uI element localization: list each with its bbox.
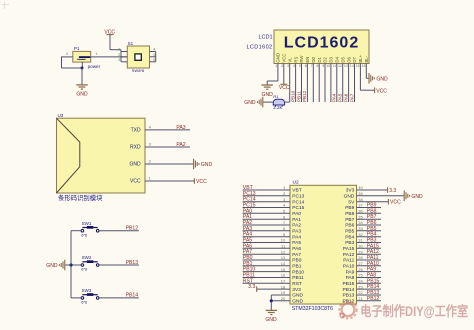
power port VCC (LCD pin15) — [375, 87, 388, 94]
svg-text:PB6: PB6 — [345, 223, 354, 229]
svg-text:15: 15 — [356, 64, 360, 68]
svg-text:PB11: PB11 — [296, 91, 301, 102]
svg-text:14: 14 — [350, 64, 354, 68]
wire U2 pin37 — [357, 207, 382, 209]
svg-text:PA12: PA12 — [343, 252, 355, 258]
wire U2 pin25 — [357, 277, 382, 279]
power port VCC (U2 pin38) — [388, 199, 401, 206]
svg-text:4: 4 — [293, 64, 295, 68]
svg-text:22: 22 — [358, 290, 363, 295]
svg-text:3: 3 — [287, 64, 289, 68]
svg-text:5: 5 — [299, 64, 301, 68]
wire SW3 left — [71, 297, 81, 299]
svg-text:PB9: PB9 — [345, 205, 354, 211]
svg-text:3V3: 3V3 — [346, 188, 355, 194]
svg-text:GND: GND — [276, 53, 281, 63]
wire U3 GND — [145, 163, 193, 165]
svg-text:8: 8 — [317, 64, 319, 68]
power port 3.3 (U2 pin18) — [248, 284, 256, 292]
svg-text:3.3: 3.3 — [248, 284, 255, 290]
wire LCD pin14 — [354, 64, 356, 103]
wire LCD pin15 to VCC — [360, 64, 374, 91]
svg-text:35: 35 — [358, 214, 363, 219]
svg-text:SW1: SW1 — [82, 221, 92, 226]
svg-text:GND: GND — [46, 263, 58, 269]
svg-text:TXD: TXD — [131, 128, 141, 134]
svg-text:6*6: 6*6 — [81, 300, 88, 305]
svg-text:PA8: PA8 — [346, 275, 355, 281]
wire U2 pin1 — [243, 189, 290, 191]
svg-text:6*6: 6*6 — [81, 267, 88, 272]
svg-text:11: 11 — [332, 64, 336, 68]
svg-text:VBT: VBT — [292, 188, 301, 194]
svg-text:power: power — [88, 64, 101, 69]
svg-text:GND: GND — [292, 293, 303, 299]
svg-text:VCC: VCC — [390, 200, 401, 206]
svg-text:PC14: PC14 — [292, 199, 304, 205]
svg-text:R1: R1 — [273, 94, 279, 99]
svg-text:PA4: PA4 — [332, 93, 337, 102]
svg-text:PB0: PB0 — [292, 258, 301, 264]
svg-text:31: 31 — [358, 238, 363, 243]
svg-text:D2: D2 — [323, 56, 328, 62]
svg-text:PB13: PB13 — [126, 260, 139, 266]
svg-text:5V: 5V — [348, 199, 355, 205]
wire U3 VCC — [145, 180, 194, 182]
svg-text:PA0: PA0 — [292, 211, 301, 217]
svg-text:2.2K: 2.2K — [273, 105, 282, 110]
wire U2 pin16 — [243, 277, 290, 279]
wire U2 pin7 — [243, 224, 290, 226]
svg-text:GND: GND — [411, 194, 423, 200]
LCD module LCD1 (LCD1602) — [274, 30, 369, 64]
svg-text:23: 23 — [358, 284, 363, 289]
wire U2 pin20 GND — [271, 300, 290, 302]
wire LCD pin12 — [342, 64, 344, 103]
svg-text:PB12: PB12 — [367, 296, 380, 302]
svg-text:PB13: PB13 — [343, 293, 355, 299]
wire U2 pin28 — [357, 259, 382, 261]
svg-text:14: 14 — [281, 261, 286, 266]
wire GND arrow to common — [65, 264, 71, 266]
MCU U2 STM32F103C8T6 — [290, 180, 357, 312]
svg-text:VCC: VCC — [196, 179, 207, 185]
wire U2 pin21 — [357, 300, 382, 302]
svg-text:19: 19 — [281, 290, 286, 295]
svg-text:RW: RW — [299, 55, 304, 63]
ground arrow (R1) — [244, 97, 263, 108]
svg-text:12: 12 — [281, 249, 286, 254]
svg-text:7: 7 — [311, 64, 313, 68]
svg-text:PB11: PB11 — [292, 275, 304, 281]
svg-text:PC15: PC15 — [292, 205, 304, 211]
wire U2 pin15 — [243, 271, 290, 273]
ground arrow (U3) — [194, 159, 213, 170]
wire U2 pin27 — [357, 265, 382, 267]
resistor R1 2.2K — [273, 94, 284, 110]
wire U2 pin9 — [243, 236, 290, 238]
svg-text:PA9: PA9 — [346, 269, 355, 275]
svg-text:RST: RST — [292, 281, 302, 287]
svg-text:GND: GND — [76, 91, 88, 97]
power port VCC (LCD pin2) — [279, 84, 290, 91]
wire switch common vertical — [70, 231, 72, 298]
wire U2 pin40 3V3 — [357, 189, 388, 191]
svg-text:PA5: PA5 — [292, 240, 301, 246]
svg-text:2: 2 — [281, 64, 283, 68]
svg-text:P1: P1 — [74, 46, 80, 51]
wire U2 pin24 — [357, 282, 382, 284]
svg-text:PB14: PB14 — [343, 287, 355, 293]
wire LCD pin2 VCC — [283, 64, 285, 85]
wire LCD pin9 — [324, 64, 326, 103]
svg-text:D5: D5 — [340, 56, 345, 62]
wire U2 pin14 — [243, 265, 290, 267]
wire VCC to S1 pin1 — [110, 35, 121, 50]
svg-text:GND: GND — [244, 100, 256, 106]
svg-text:20: 20 — [281, 296, 286, 301]
wire U2 pin19 GND — [271, 294, 290, 296]
wire U2 pin3 — [243, 201, 290, 203]
wire LCD pin5 — [301, 64, 303, 103]
wire U3 TXD — [145, 129, 190, 131]
svg-text:STM32F103C8T6: STM32F103C8T6 — [292, 306, 333, 312]
wire SW3 right — [99, 297, 139, 299]
ground symbol LCD pin1 — [262, 85, 274, 98]
svg-text:40: 40 — [358, 185, 363, 190]
svg-text:PA5: PA5 — [338, 93, 343, 102]
svg-text:PA2: PA2 — [176, 142, 185, 148]
junction dot U2 ground — [270, 299, 273, 302]
svg-text:RXD: RXD — [130, 145, 141, 151]
wire LCD pin10 — [330, 64, 332, 103]
wire SW1 right — [99, 230, 139, 232]
S1 left pin stubs and link — [121, 50, 127, 62]
svg-text:PB4: PB4 — [345, 234, 354, 240]
ground symbol below P1 — [76, 85, 88, 98]
svg-text:GND: GND — [292, 299, 303, 305]
wire U2 pin32 — [357, 236, 382, 238]
svg-text:VCC: VCC — [376, 88, 387, 94]
connector P1 — [73, 46, 101, 69]
wire LCD pin11 — [336, 64, 338, 103]
wire U2 pin35 — [357, 218, 382, 220]
svg-text:1: 1 — [275, 64, 277, 68]
wire LCD pin6 — [306, 64, 308, 103]
wire U2 pin22 — [357, 294, 382, 296]
svg-text:34: 34 — [358, 220, 363, 225]
svg-text:SW8*8: SW8*8 — [132, 68, 145, 73]
svg-text:38: 38 — [358, 197, 363, 202]
svg-text:26: 26 — [358, 267, 363, 272]
ground symbol U2 — [265, 310, 277, 322]
wire U3 RXD — [145, 146, 190, 148]
svg-text:EN: EN — [305, 57, 310, 63]
svg-text:GND: GND — [344, 194, 355, 200]
svg-text:U2: U2 — [293, 180, 299, 186]
ground symbol (U2 pin39) — [404, 191, 423, 202]
svg-text:D0: D0 — [311, 56, 316, 62]
svg-text:U3: U3 — [58, 113, 64, 118]
svg-text:PB7: PB7 — [345, 217, 354, 223]
svg-text:27: 27 — [358, 261, 363, 266]
ground arrow (LCD pin16) — [369, 73, 388, 84]
wire U2 pin39 GND — [357, 195, 405, 197]
svg-text:SW3: SW3 — [82, 288, 92, 293]
wire LCD pin1 GND — [267, 64, 278, 85]
svg-text:PA15: PA15 — [343, 246, 355, 252]
wire LCD pin7 — [312, 64, 314, 103]
ground arrow (switch common) — [46, 260, 65, 271]
wire U2 pin36 — [357, 212, 382, 214]
svg-text:PA3: PA3 — [176, 125, 185, 131]
svg-text:BL+: BL+ — [358, 54, 363, 62]
wire U2 pin30 — [357, 247, 382, 249]
watermark text — [360, 303, 469, 320]
wire U2 pin31 — [357, 242, 382, 244]
svg-text:PB10: PB10 — [292, 269, 304, 275]
wire SW2 right — [99, 264, 139, 266]
svg-text:VCC: VCC — [282, 54, 287, 63]
svg-text:24: 24 — [358, 279, 363, 284]
svg-text:D1: D1 — [317, 56, 322, 62]
svg-text:28: 28 — [358, 255, 363, 260]
wire U2 pin4 — [243, 207, 290, 209]
svg-text:PB1: PB1 — [292, 264, 301, 270]
wire U2 pin6 — [243, 218, 290, 220]
svg-text:VL: VL — [287, 57, 292, 63]
pushbutton SW2 6*6 — [81, 255, 99, 272]
svg-text:S1: S1 — [128, 41, 134, 46]
svg-text:10: 10 — [281, 238, 286, 243]
wire U2 ground vertical — [270, 295, 272, 310]
svg-text:PA11: PA11 — [343, 258, 354, 264]
svg-text:PB8: PB8 — [345, 211, 354, 217]
svg-text:LCD1602: LCD1602 — [246, 44, 272, 50]
svg-text:PC13: PC13 — [292, 194, 304, 200]
wire U2 pin34 — [357, 224, 382, 226]
wire U2 pin29 — [357, 253, 382, 255]
svg-text:21: 21 — [358, 296, 363, 301]
svg-text:PA2: PA2 — [292, 223, 301, 229]
svg-text:3V3: 3V3 — [292, 287, 301, 293]
svg-text:PB15: PB15 — [343, 281, 355, 287]
S1 right pin stubs and link — [150, 52, 156, 62]
svg-text:RS: RS — [293, 56, 298, 62]
wire LCD pin13 — [348, 64, 350, 103]
svg-text:10: 10 — [326, 64, 330, 68]
svg-text:9: 9 — [322, 64, 324, 68]
svg-text:12: 12 — [338, 64, 342, 68]
wire U2 pin26 — [357, 271, 382, 273]
power port VCC (U3) — [194, 178, 207, 185]
wire U2 pin33 — [357, 230, 382, 232]
svg-text:25: 25 — [358, 273, 363, 278]
wire U2 pin17 — [243, 282, 290, 284]
pushbutton SW1 6*6 — [81, 221, 99, 238]
junction dot switch common/GND — [69, 263, 72, 266]
power port VCC (top left) — [104, 30, 115, 36]
svg-text:16: 16 — [281, 273, 286, 278]
svg-text:PB10: PB10 — [290, 90, 295, 102]
wire U2 pin38 5V — [357, 201, 389, 203]
svg-text:电子制作DIY@工作室: 电子制作DIY@工作室 — [360, 303, 468, 319]
svg-text:PB14: PB14 — [126, 293, 139, 299]
svg-text:39: 39 — [358, 191, 363, 196]
wire SW2 left — [71, 264, 81, 266]
svg-text:32: 32 — [358, 232, 363, 237]
svg-text:17: 17 — [281, 279, 286, 284]
svg-text:BL-: BL- — [364, 55, 369, 62]
wire LCD pin3 VL to R1 — [285, 64, 290, 103]
wire LCD pin8 — [318, 64, 320, 103]
svg-text:LCD1602: LCD1602 — [284, 35, 359, 52]
svg-text:D3: D3 — [329, 56, 334, 62]
svg-text:18: 18 — [281, 284, 286, 289]
svg-text:SW2: SW2 — [82, 255, 92, 260]
svg-text:6*6: 6*6 — [81, 232, 88, 237]
svg-text:33: 33 — [358, 226, 363, 231]
wire U2 pin2 — [243, 195, 290, 197]
pushbutton SW3 6*6 — [81, 288, 99, 305]
wire SW1 left — [71, 230, 81, 232]
svg-text:VCC: VCC — [130, 179, 141, 185]
svg-text:PA6: PA6 — [343, 93, 348, 102]
wire R1 to ground arrow — [263, 101, 273, 103]
wire U2 pin12 — [243, 253, 290, 255]
svg-text:PA4: PA4 — [292, 234, 301, 240]
svg-text:条形码识别模块: 条形码识别模块 — [58, 193, 103, 202]
svg-text:PA3: PA3 — [292, 229, 301, 235]
svg-text:D4: D4 — [335, 56, 340, 62]
svg-text:16: 16 — [362, 64, 366, 68]
module U3 (barcode reader) — [57, 113, 146, 193]
svg-text:LCD1: LCD1 — [258, 35, 272, 41]
power port 3.3 (U2 pin40) — [388, 187, 397, 194]
svg-text:PA7: PA7 — [292, 252, 301, 258]
switch S1 — [127, 41, 149, 73]
svg-text:PA1: PA1 — [292, 217, 301, 223]
svg-text:PB5: PB5 — [345, 229, 354, 235]
wire U2 pin8 — [243, 230, 290, 232]
svg-text:PA10: PA10 — [343, 264, 355, 270]
wire LCD pin4 — [295, 64, 297, 103]
svg-text:29: 29 — [358, 249, 363, 254]
svg-text:VCC: VCC — [279, 85, 290, 91]
wire U2 pin13 — [243, 259, 290, 261]
wire U2 pin18 3V3 — [257, 288, 290, 290]
wire P1 pin2 loop to ground — [62, 56, 83, 68]
svg-text:13: 13 — [281, 255, 286, 260]
svg-text:PB12: PB12 — [302, 90, 307, 102]
wire LCD pin16 to GND — [366, 64, 369, 79]
wire U2 pin23 — [357, 288, 382, 290]
watermark logo — [339, 301, 356, 318]
svg-text:PA7: PA7 — [349, 93, 354, 102]
wire P1 pin1 to S1 — [91, 56, 128, 58]
wire P1 junction to GND — [81, 68, 83, 85]
svg-text:GND: GND — [376, 76, 388, 82]
wire U2 pin5 — [243, 212, 290, 214]
svg-text:D7: D7 — [352, 56, 357, 62]
svg-text:15: 15 — [281, 267, 286, 272]
junction dot P1/ground — [81, 67, 84, 70]
svg-text:D6: D6 — [346, 56, 351, 62]
svg-text:30: 30 — [358, 244, 363, 249]
wire U2 pin10 — [243, 242, 290, 244]
svg-text:36: 36 — [358, 209, 363, 214]
svg-text:PB12: PB12 — [126, 226, 139, 232]
svg-text:PB3: PB3 — [345, 240, 354, 246]
svg-text:GND: GND — [265, 317, 277, 323]
svg-text:PA6: PA6 — [292, 246, 301, 252]
svg-text:6: 6 — [305, 64, 307, 68]
wire U2 pin11 — [243, 247, 290, 249]
svg-text:3.3: 3.3 — [389, 188, 396, 194]
svg-text:13: 13 — [344, 64, 348, 68]
svg-text:GND: GND — [201, 162, 213, 168]
svg-text:37: 37 — [358, 203, 363, 208]
svg-text:GND: GND — [129, 162, 141, 168]
